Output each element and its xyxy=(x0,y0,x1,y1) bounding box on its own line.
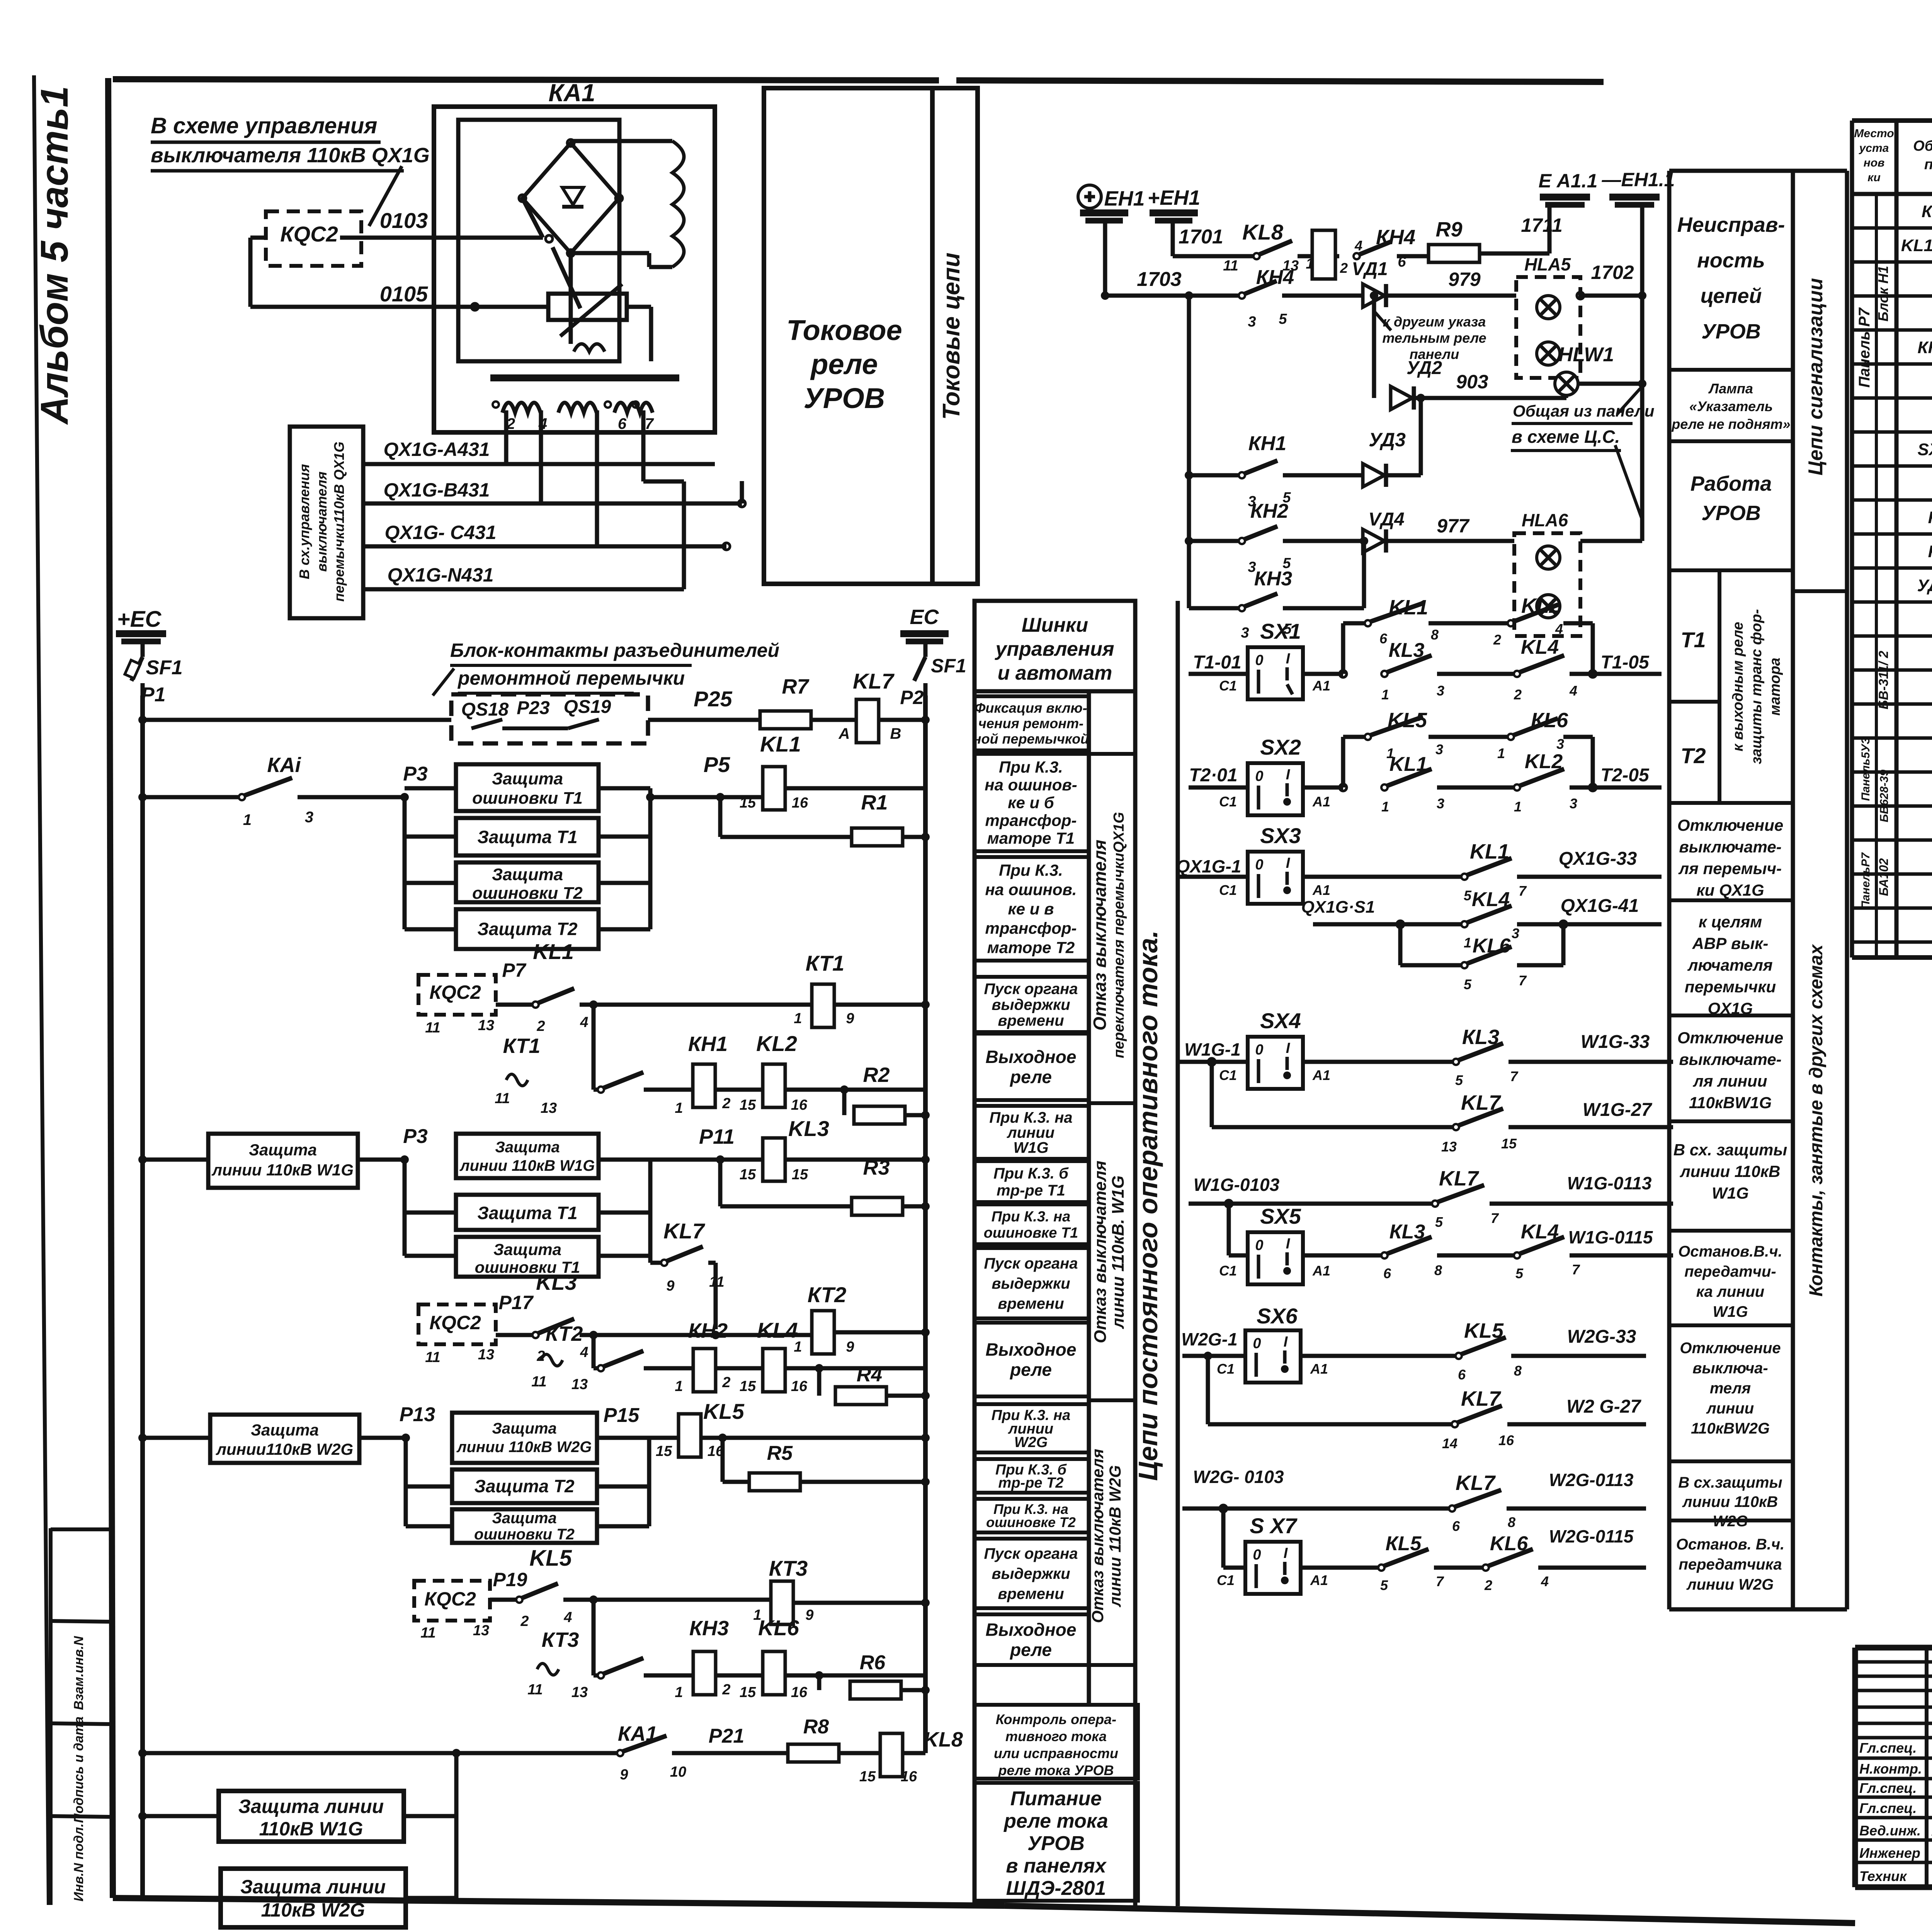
cell 'Отключение выключателя перемычки QX1G' xyxy=(1669,801,1793,805)
svg-text:KL1: KL1 xyxy=(760,732,801,756)
svg-text:7: 7 xyxy=(1519,973,1527,988)
svg-text:КQC2: КQC2 xyxy=(429,981,481,1003)
svg-text:SX1: SX1 xyxy=(1260,619,1301,643)
svg-text:15: 15 xyxy=(656,1443,672,1459)
svg-text:Инженер: Инженер xyxy=(1859,1845,1920,1861)
svg-text:Н.контр.: Н.контр. xyxy=(1859,1761,1922,1777)
svg-text:QS18: QS18 xyxy=(461,699,509,720)
cell 'Пуск органа выдержки времени' 3 xyxy=(975,1539,1089,1608)
lamp panel HLA6 (dashed) xyxy=(1514,533,1580,636)
svg-text:Шинки: Шинки xyxy=(1022,614,1088,636)
svg-text:Защита: Защита xyxy=(251,1421,319,1439)
current relay KA1 outer box xyxy=(434,107,715,432)
svg-text:9: 9 xyxy=(666,1278,674,1294)
rectifier bridge xyxy=(522,143,619,253)
svg-text:ШДЭ-2801: ШДЭ-2801 xyxy=(1006,1877,1106,1900)
svg-text:1701: 1701 xyxy=(1179,226,1223,248)
svg-text:или исправности: или исправности xyxy=(994,1745,1118,1761)
right vertical protections 2 xyxy=(599,1158,650,1162)
svg-text:3: 3 xyxy=(1437,683,1444,699)
svg-text:W1G-0115: W1G-0115 xyxy=(1568,1227,1653,1247)
svg-text:линии 110кВ: линии 110кВ xyxy=(1682,1493,1778,1510)
svg-text:977: 977 xyxy=(1437,515,1470,537)
svg-text:Техник: Техник xyxy=(1859,1868,1907,1884)
branch vertical to SX5 xyxy=(1227,1204,1231,1255)
svg-text:QX1G·S1: QX1G·S1 xyxy=(1301,898,1375,917)
svg-text:Пуск органа: Пуск органа xyxy=(984,981,1078,998)
svg-text:13: 13 xyxy=(571,1684,588,1701)
KQC2 row 2 (dashed) xyxy=(418,1304,496,1344)
svg-text:SX3: SX3 xyxy=(1260,823,1301,848)
svg-text:3: 3 xyxy=(1556,736,1564,752)
svg-text:Токовые цепи: Токовые цепи xyxy=(938,253,965,420)
svg-text:QX1G-N431: QX1G-N431 xyxy=(387,564,493,586)
svg-text:Р21: Р21 xyxy=(709,1725,745,1747)
svg-text:16: 16 xyxy=(1498,1432,1514,1448)
cell 'В сх. защиты линии 110кВ W1G' xyxy=(1669,1119,1793,1123)
svg-text:по схеме: по схеме xyxy=(1924,156,1932,173)
title block outer xyxy=(1855,1645,1932,1651)
svg-text:2: 2 xyxy=(1484,1577,1492,1593)
svg-text:ки: ки xyxy=(1867,171,1881,184)
protection box 'Защита ошиновки Т2' xyxy=(456,862,599,902)
svg-text:Защита: Защита xyxy=(495,1139,560,1156)
svg-text:В сх.управления: В сх.управления xyxy=(296,464,312,579)
svg-text:линии 110кВ W2G: линии 110кВ W2G xyxy=(456,1439,592,1456)
svg-text:времени: времени xyxy=(998,1585,1064,1602)
svg-text:С1: С1 xyxy=(1217,1572,1235,1588)
svg-text:ЕС: ЕС xyxy=(910,605,939,629)
svg-text:С1: С1 xyxy=(1217,1361,1235,1377)
svg-text:KL4: KL4 xyxy=(1521,636,1559,658)
svg-text:матора: матора xyxy=(1767,658,1783,716)
svg-text:0: 0 xyxy=(1255,768,1263,784)
svg-text:2: 2 xyxy=(722,1095,730,1112)
svg-text:КТ2: КТ2 xyxy=(808,1282,846,1307)
table row lines xyxy=(1852,226,1932,230)
svg-text:Защита линии: Защита линии xyxy=(238,1796,384,1817)
svg-text:1: 1 xyxy=(1381,687,1389,702)
svg-text:Останов. В.ч.: Останов. В.ч. xyxy=(1676,1536,1785,1553)
svg-text:KL3: KL3 xyxy=(788,1116,829,1141)
svg-text:S X7: S X7 xyxy=(1250,1514,1298,1538)
svg-text:маторе Т1: маторе Т1 xyxy=(987,829,1075,847)
svg-text:R7÷ R9: R7÷ R9 xyxy=(1928,542,1932,561)
svg-text:реле тока УРОВ: реле тока УРОВ xyxy=(998,1762,1114,1778)
svg-text:Отключение: Отключение xyxy=(1677,816,1783,834)
svg-text:Вед.инж.: Вед.инж. xyxy=(1859,1823,1921,1838)
svg-text:Р11: Р11 xyxy=(699,1125,735,1148)
svg-text:ошиновки Т1: ошиновки Т1 xyxy=(472,789,583,808)
svg-text:13: 13 xyxy=(478,1347,494,1363)
svg-text:ошиновки Т2: ошиновки Т2 xyxy=(472,884,583,903)
svg-text:Р2: Р2 xyxy=(900,687,923,708)
svg-text:Пуск органа: Пуск органа xyxy=(984,1255,1078,1272)
svg-text:W2G-33: W2G-33 xyxy=(1567,1327,1636,1347)
svg-text:W1G-0113: W1G-0113 xyxy=(1567,1173,1651,1193)
svg-text:QX1G-В431: QX1G-В431 xyxy=(383,479,490,501)
svg-text:SХ6: SХ6 xyxy=(1257,1304,1298,1328)
svg-text:выдержки: выдержки xyxy=(992,1565,1070,1582)
svg-text:8: 8 xyxy=(1431,627,1439,643)
svg-text:УД1÷ УД4: УД1÷ УД4 xyxy=(1917,576,1932,595)
branch vertical SX6 xyxy=(1206,1356,1210,1424)
svg-text:2: 2 xyxy=(722,1374,730,1391)
cell 'При К.З. на ошиновке и б трансформаторе Т1' xyxy=(975,754,1089,851)
svg-text:Защита Т1: Защита Т1 xyxy=(477,1203,577,1223)
svg-text:тивного тока: тивного тока xyxy=(1005,1728,1107,1744)
svg-text:С1: С1 xyxy=(1219,678,1237,694)
svg-text:110кВW2G: 110кВW2G xyxy=(1691,1420,1770,1437)
svg-text:HLW1: HLW1 xyxy=(1558,344,1614,366)
svg-text:линии 110кВ: линии 110кВ xyxy=(1680,1162,1781,1180)
contact arm on 0103 xyxy=(522,198,543,238)
cell 'При К.З. на ошиновке Т1' xyxy=(975,1204,1089,1244)
svg-text:2: 2 xyxy=(520,1613,529,1629)
table col1 inner divider xyxy=(1875,194,1878,957)
cell T1 xyxy=(1669,700,1719,704)
relay winding right of bridge xyxy=(672,141,684,267)
svg-text:R7: R7 xyxy=(782,675,810,698)
svg-text:Р23: Р23 xyxy=(517,698,550,718)
svg-text:КН1÷ КН3: КН1÷ КН3 xyxy=(1918,338,1932,357)
cell 'Останов ВЧ передатчика линии W1G' xyxy=(1669,1229,1793,1233)
svg-text:цепей: цепей xyxy=(1701,284,1762,308)
svg-text:трансфор-: трансфор- xyxy=(985,811,1077,830)
drawing frame top border xyxy=(113,79,939,80)
svg-text:7: 7 xyxy=(1436,1573,1444,1589)
svg-text:ке и б: ке и б xyxy=(1008,794,1054,812)
svg-text:А1: А1 xyxy=(1310,1572,1328,1588)
svg-text:16: 16 xyxy=(901,1769,917,1785)
svg-text:При К.3.: При К.3. xyxy=(999,758,1063,776)
svg-text:КQC2: КQC2 xyxy=(280,222,338,246)
svg-text:5: 5 xyxy=(1279,311,1287,327)
svg-text:к целям: к целям xyxy=(1699,913,1762,931)
svg-text:KL4: KL4 xyxy=(757,1318,798,1342)
svg-text:15: 15 xyxy=(740,1378,756,1395)
svg-text:1711: 1711 xyxy=(1521,214,1563,236)
svg-text:KL8: KL8 xyxy=(923,1728,963,1751)
svg-text:7: 7 xyxy=(1510,1068,1519,1084)
rail 4: W2G line protection xyxy=(138,1434,147,1442)
svg-text:выключате-: выключате- xyxy=(1679,838,1781,856)
svg-text:КАi: КАi xyxy=(267,753,301,777)
svg-text:15: 15 xyxy=(740,1097,756,1113)
svg-text:1: 1 xyxy=(1464,935,1471,951)
svg-text:на ошинов.: на ошинов. xyxy=(985,881,1077,899)
varistor xyxy=(548,294,627,320)
svg-text:выключателя: выключателя xyxy=(314,471,330,572)
svg-text:I: I xyxy=(1286,1040,1291,1056)
svg-text:R6: R6 xyxy=(860,1651,886,1674)
svg-text:тр-ре Т2: тр-ре Т2 xyxy=(998,1475,1064,1491)
cell 'Отключение выключателя линии 110кВ W2G' xyxy=(1669,1323,1793,1327)
cell 'Питание реле тока УРОВ в панелях ШДЭ-2801' xyxy=(975,1783,1138,1901)
node vertical protections 2 xyxy=(400,1155,409,1164)
svg-text:5: 5 xyxy=(1435,1214,1443,1230)
svg-text:HLA6: HLA6 xyxy=(1522,510,1568,530)
svg-text:Защита: Защита xyxy=(492,769,563,788)
svg-text:А1: А1 xyxy=(1312,678,1330,694)
column box 'Шинки управления и автомат' xyxy=(975,601,1135,691)
svg-text:VД1: VД1 xyxy=(1352,259,1388,279)
svg-text:в схеме Ц.С.: в схеме Ц.С. xyxy=(1512,427,1620,447)
svg-text:выдержки: выдержки xyxy=(992,997,1070,1014)
svg-text:перемычки110кВ QX1G: перемычки110кВ QX1G xyxy=(331,442,347,602)
svg-text:Выходное: Выходное xyxy=(986,1340,1077,1360)
vertical for KH1-KH3 group xyxy=(1187,296,1191,608)
vertical to KT2 timer row xyxy=(592,1335,596,1368)
right column frame xyxy=(1667,171,1672,1609)
cell 'Останов ВЧ передатчика линии W2G' xyxy=(1669,1519,1793,1522)
svg-text:W1G-0103: W1G-0103 xyxy=(1194,1175,1280,1195)
switch SX5 xyxy=(1248,1232,1303,1284)
rotated box 'В сх.управления выключателя перемычки 110кВ QX1G' xyxy=(290,427,363,618)
svg-text:11: 11 xyxy=(495,1090,510,1107)
svg-text:KL1÷KL6·KL8: KL1÷KL6·KL8 xyxy=(1901,236,1932,255)
rail 3: W1G line protection xyxy=(138,1155,147,1164)
left DC bus + xyxy=(140,696,145,1898)
svg-text:Взам.инв.N: Взам.инв.N xyxy=(71,1636,86,1710)
S1 wire xyxy=(1313,922,1462,927)
dashed box QS18 P23 QS19 xyxy=(451,694,648,743)
svg-text:В схеме управления: В схеме управления xyxy=(151,113,377,138)
svg-text:W1G-27: W1G-27 xyxy=(1583,1100,1653,1120)
svg-text:А1: А1 xyxy=(1312,882,1330,898)
svg-text:БА102: БА102 xyxy=(1877,858,1891,896)
svg-text:5: 5 xyxy=(1380,1577,1388,1593)
svg-text:защиты транс фор-: защиты транс фор- xyxy=(1748,609,1765,764)
svg-text:Контакты, занятые в других: Контакты, занятые в других схемах xyxy=(1806,944,1827,1296)
svg-text:времени: времени xyxy=(998,1012,1064,1029)
svg-text:8: 8 xyxy=(1434,1262,1442,1278)
svg-text:KL7: KL7 xyxy=(1456,1471,1496,1495)
svg-text:SX2: SX2 xyxy=(1260,735,1301,759)
svg-text:линии: линии xyxy=(1706,1400,1754,1417)
svg-text:Общая из панели: Общая из панели xyxy=(1513,402,1655,420)
svg-text:Панель Р7: Панель Р7 xyxy=(1856,307,1873,388)
svg-text:110кВ W2G: 110кВ W2G xyxy=(261,1899,365,1921)
bold separator bar xyxy=(490,374,679,381)
svg-text:УРОВ: УРОВ xyxy=(1701,320,1761,343)
lower inductor xyxy=(574,344,605,352)
protection box 'Защита ошиновки Т1' xyxy=(456,764,599,811)
svg-text:Фиксация вклю-: Фиксация вклю- xyxy=(975,700,1087,716)
column 'Токовые цепи' xyxy=(932,88,978,584)
vertical KH3 join xyxy=(1362,541,1366,608)
svg-text:времени: времени xyxy=(998,1295,1064,1312)
svg-text:3: 3 xyxy=(1248,314,1256,330)
svg-text:R4: R4 xyxy=(857,1364,883,1386)
svg-text:При К.3. на: При К.3. на xyxy=(992,1209,1071,1225)
vertical to KT1 timer row xyxy=(592,1005,596,1090)
protection box 'Защита Т2' xyxy=(456,909,599,949)
svg-text:теля: теля xyxy=(1710,1380,1751,1397)
box 'Защита ошиновки Т1' xyxy=(456,1237,599,1277)
svg-text:4: 4 xyxy=(563,1609,572,1626)
svg-text:P25: P25 xyxy=(694,687,732,711)
svg-text:W1G: W1G xyxy=(1713,1303,1748,1320)
svg-text:Р7: Р7 xyxy=(502,959,526,981)
svg-text:6: 6 xyxy=(1452,1518,1460,1534)
svg-text:ля линии: ля линии xyxy=(1693,1072,1767,1090)
svg-text:SF1: SF1 xyxy=(931,655,966,677)
svg-text:Р3: Р3 xyxy=(403,1125,428,1148)
svg-text:Подпись и дата: Подпись и дата xyxy=(71,1716,86,1823)
svg-text:R9: R9 xyxy=(1435,218,1462,241)
svg-text:КТ3: КТ3 xyxy=(769,1556,808,1580)
svg-text:реле: реле xyxy=(810,348,878,380)
terminal +EH1 (circled) xyxy=(1078,185,1101,208)
vertical to KT3 timer row xyxy=(592,1600,596,1675)
protection box 'Защита Т1' xyxy=(456,818,599,855)
svg-text:3: 3 xyxy=(305,809,313,826)
svg-text:2: 2 xyxy=(1514,687,1522,702)
svg-text:БВ-311/ 2: БВ-311/ 2 xyxy=(1876,651,1891,709)
signature rows xyxy=(1855,1660,1932,1664)
svg-text:KL5: KL5 xyxy=(703,1399,745,1423)
svg-text:выключа-: выключа- xyxy=(1692,1360,1768,1377)
svg-text:выдержки: выдержки xyxy=(992,1275,1070,1292)
cell 'При К.З. на ошиновке и в трансформаторе Т2' xyxy=(975,857,1089,961)
svg-text:W2G- 0103: W2G- 0103 xyxy=(1193,1467,1284,1487)
svg-text:Цепи сигнализации: Цепи сигнализации xyxy=(1804,278,1827,476)
svg-text:КТ1: КТ1 xyxy=(503,1034,541,1058)
svg-text:I: I xyxy=(1286,767,1291,783)
svg-text:Отказ выключателя: Отказ выключателя xyxy=(1091,1161,1110,1344)
svg-text:Защита Т2: Защита Т2 xyxy=(477,919,578,939)
svg-text:к другим указа: к другим указа xyxy=(1383,314,1486,330)
svg-text:4: 4 xyxy=(1541,1573,1549,1589)
cell 'При К.З. на линии W2G' xyxy=(975,1404,1089,1452)
svg-text:перемычки: перемычки xyxy=(1685,978,1776,996)
svg-text:ПанельР7: ПанельР7 xyxy=(1859,852,1872,909)
svg-text:I: I xyxy=(1284,1334,1288,1350)
svg-text:11: 11 xyxy=(1223,258,1238,274)
svg-text:7: 7 xyxy=(1572,1262,1580,1277)
svg-text:С1: С1 xyxy=(1219,882,1237,898)
svg-text:Блок-контакты разъединителей: Блок-контакты разъединителей xyxy=(450,639,779,661)
right vertical protections 1 xyxy=(599,786,650,791)
svg-text:В сх. защиты: В сх. защиты xyxy=(1673,1141,1787,1159)
svg-text:4: 4 xyxy=(1555,621,1563,637)
svg-text:QX1G-41: QX1G-41 xyxy=(1561,896,1639,916)
svg-text:SF1: SF1 xyxy=(146,656,182,679)
svg-text:ке и в: ке и в xyxy=(1008,900,1054,918)
svg-text:13: 13 xyxy=(571,1376,588,1393)
svg-text:нов: нов xyxy=(1864,156,1885,169)
svg-text:реле: реле xyxy=(1009,1640,1052,1660)
svg-text:R8: R8 xyxy=(803,1716,829,1738)
svg-text:КН3: КН3 xyxy=(689,1617,729,1640)
svg-text:0: 0 xyxy=(1253,1335,1261,1352)
svg-text:При К.3.: При К.3. xyxy=(999,861,1063,879)
svg-text:—ЕН1.1: —ЕН1.1 xyxy=(1602,169,1675,190)
svg-text:КQC2: КQC2 xyxy=(424,1588,476,1610)
svg-text:KL7: KL7 xyxy=(663,1219,706,1243)
drawing frame bottom border xyxy=(113,1898,1005,1906)
svg-text:11: 11 xyxy=(425,1349,440,1366)
svg-text:11: 11 xyxy=(425,1020,440,1036)
svg-text:0: 0 xyxy=(1255,857,1263,873)
svg-text:Р19: Р19 xyxy=(493,1569,527,1590)
svg-text:трансфор-: трансфор- xyxy=(985,919,1077,937)
svg-text:0: 0 xyxy=(1255,652,1263,668)
svg-text:Отказ выключателя: Отказ выключателя xyxy=(1088,1449,1107,1623)
svg-text:УД3: УД3 xyxy=(1369,429,1406,451)
KQC2 row 1 (dashed) xyxy=(418,975,496,1015)
svg-text:W2G-0113: W2G-0113 xyxy=(1549,1470,1633,1490)
svg-text:ошиновке Т2: ошиновке Т2 xyxy=(986,1514,1076,1530)
svg-text:ной перемычкой: ной перемычкой xyxy=(973,731,1089,747)
svg-text:+ЕН1: +ЕН1 xyxy=(1148,186,1201,209)
branch to diode VD2 xyxy=(1372,296,1376,398)
svg-text:А1: А1 xyxy=(1312,794,1330,810)
svg-text:и автомат: и автомат xyxy=(998,662,1112,684)
svg-text:0: 0 xyxy=(1253,1547,1261,1563)
svg-text:110кВW1G: 110кВW1G xyxy=(1689,1094,1772,1112)
svg-text:W2G: W2G xyxy=(1014,1434,1048,1451)
svg-text:Альбом 5 часть1: Альбом 5 часть1 xyxy=(33,86,76,425)
svg-text:9: 9 xyxy=(805,1607,813,1623)
node vertical protections 1 xyxy=(400,793,409,801)
svg-text:Отказ выключателя: Отказ выключателя xyxy=(1090,840,1110,1031)
terminal bar EH1 left xyxy=(1080,209,1128,216)
svg-text:БВ628-39: БВ628-39 xyxy=(1878,770,1891,823)
svg-text:к выходным реле: к выходным реле xyxy=(1730,622,1746,751)
KA1 inner box xyxy=(458,120,619,361)
svg-text:линии: линии xyxy=(1007,1124,1054,1141)
svg-text:КН2: КН2 xyxy=(688,1319,728,1342)
svg-text:SX1÷ SX7: SX1÷ SX7 xyxy=(1918,440,1932,459)
CT secondary windings xyxy=(502,403,541,413)
cell 'Выходное реле' 1 xyxy=(975,1034,1089,1100)
svg-text:Лампа: Лампа xyxy=(1708,381,1753,396)
svg-text:линии 110кВ W2G: линии 110кВ W2G xyxy=(1106,1465,1124,1607)
svg-text:110кВ W1G: 110кВ W1G xyxy=(259,1818,363,1840)
svg-text:5: 5 xyxy=(1515,1265,1524,1281)
svg-text:15: 15 xyxy=(792,1167,808,1183)
svg-text:реле не поднят»: реле не поднят» xyxy=(1671,416,1790,432)
leader lines to lamps xyxy=(1617,387,1641,414)
cell 'При К.З. в тр-ре Т2' xyxy=(975,1459,1089,1493)
box 'Защита линии 110кВ W1G' left xyxy=(208,1134,358,1188)
svg-text:Т1-05: Т1-05 xyxy=(1600,652,1650,673)
svg-text:КА1: КА1 xyxy=(548,79,595,107)
svg-text:13: 13 xyxy=(478,1017,494,1034)
svg-text:4: 4 xyxy=(580,1344,588,1361)
svg-text:P5: P5 xyxy=(704,752,730,777)
svg-text:КQC2: КQC2 xyxy=(429,1312,481,1333)
contact KL5 (SX2 upper) xyxy=(1343,735,1366,739)
svg-text:2: 2 xyxy=(1340,260,1348,276)
box 'Токовое реле УРОВ' xyxy=(764,88,932,584)
svg-text:1: 1 xyxy=(675,1378,683,1395)
svg-text:Место: Место xyxy=(1854,127,1894,140)
svg-text:VД4: VД4 xyxy=(1368,509,1404,530)
svg-text:Защита: Защита xyxy=(492,1510,557,1527)
svg-text:+ЕС: +ЕС xyxy=(117,607,162,632)
svg-text:ошиновке Т1: ошиновке Т1 xyxy=(984,1225,1078,1241)
svg-text:0103: 0103 xyxy=(380,208,428,233)
svg-text:1702: 1702 xyxy=(1591,262,1634,283)
vertical bus -EH1.1 xyxy=(1640,205,1645,541)
svg-text:3: 3 xyxy=(1437,796,1444,811)
svg-text:11: 11 xyxy=(420,1625,435,1641)
svg-text:7: 7 xyxy=(1519,883,1527,899)
svg-text:ошиновки Т2: ошиновки Т2 xyxy=(474,1526,575,1543)
